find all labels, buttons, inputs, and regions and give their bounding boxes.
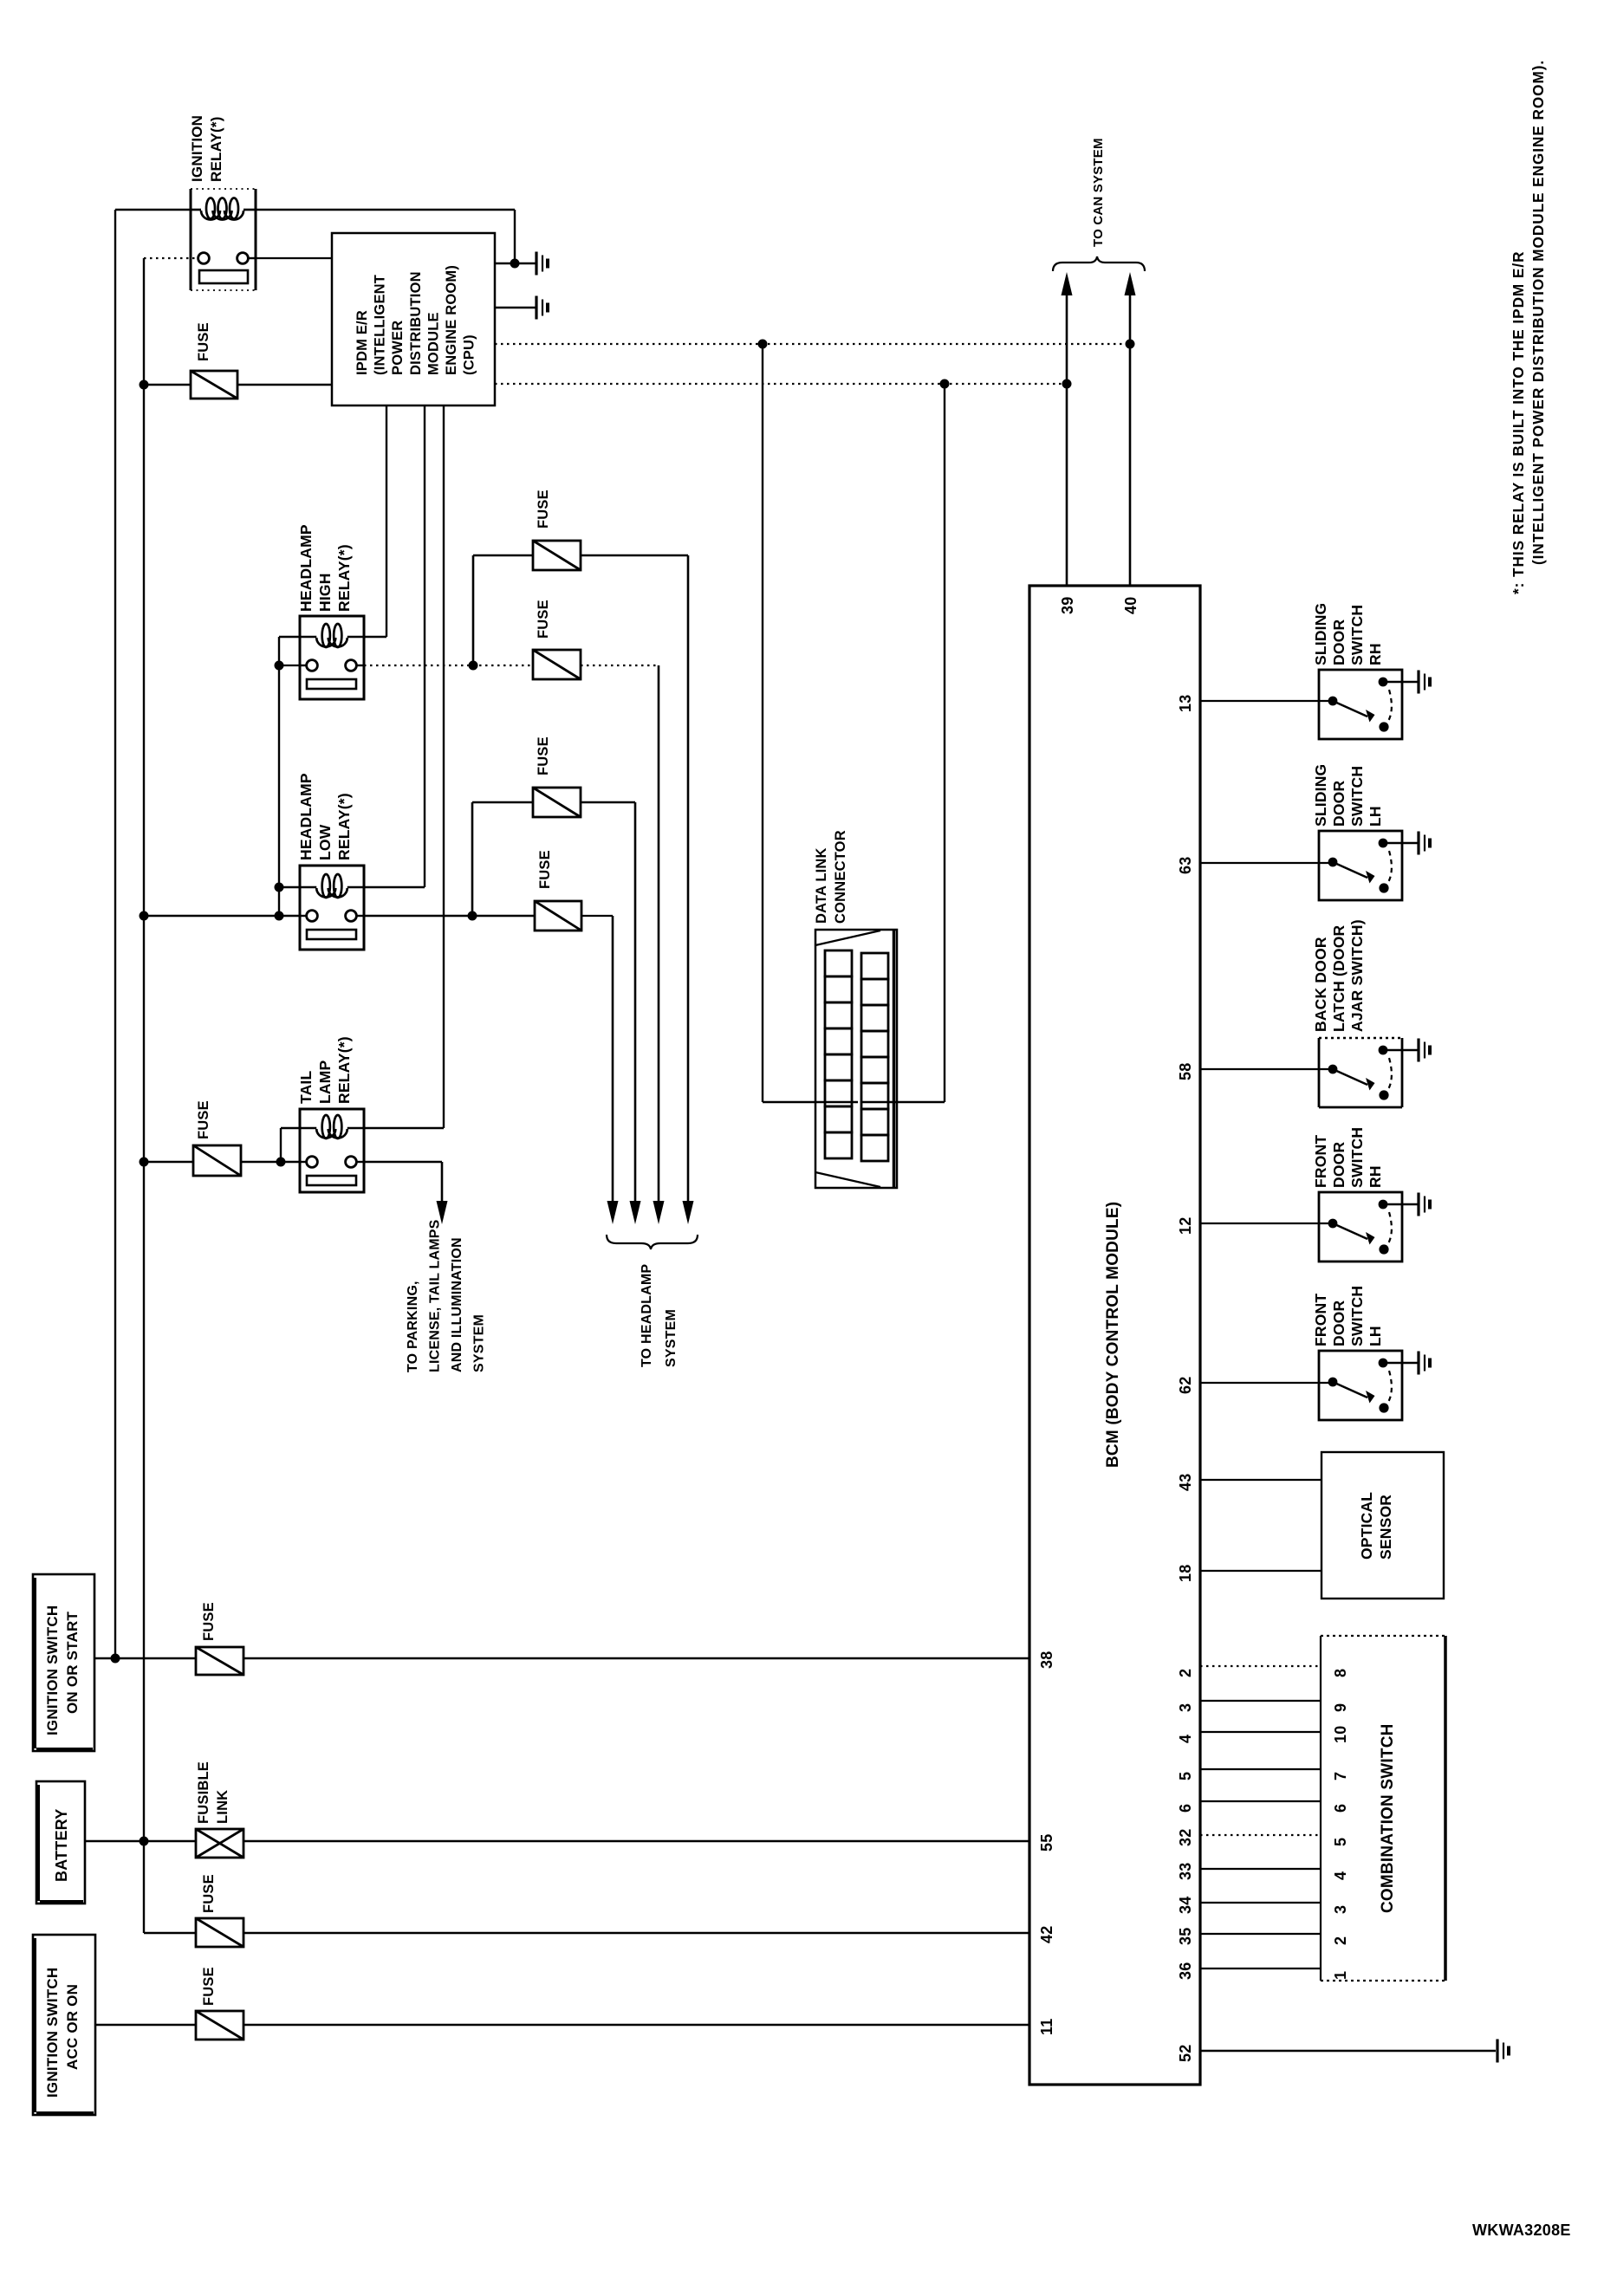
IPDM E/R box U1 (INTELLIGENT POWER DISTRIBUTION MODULE ENGINE ROOM)(CPU): [332, 233, 495, 405]
svg-text:ENGINE ROOM): ENGINE ROOM): [444, 265, 459, 375]
arrow to CAN system 2 (pin 40): [1129, 293, 1132, 586]
svg-text:DOOR: DOOR: [1330, 1300, 1347, 1346]
arrow headlamp system 3: [658, 665, 660, 1203]
wire ignition relay contact output to IPDM: [256, 257, 332, 259]
wire BCM pin 12: [1200, 1223, 1333, 1224]
wire BCM pin 6 to combination switch pin 6: [1200, 1800, 1321, 1802]
junction dot high relay contact feed: [275, 661, 284, 671]
svg-text:7: 7: [1332, 1772, 1349, 1780]
wire ignition switch ON to fuse: [94, 1657, 196, 1659]
svg-text:39: 39: [1059, 597, 1076, 614]
wire BCM pin 4 to combination switch pin 10: [1200, 1731, 1321, 1733]
wire ignition relay coil left lead: [115, 209, 191, 211]
wire high relay contact output dotted: [364, 665, 533, 666]
svg-text:35: 35: [1177, 1928, 1194, 1945]
svg-text:LATCH (DOOR: LATCH (DOOR: [1330, 924, 1347, 1032]
svg-text:BATTERY: BATTERY: [53, 1809, 70, 1882]
svg-text:LH: LH: [1367, 1326, 1384, 1346]
junction dot ignition relay coil tap: [111, 1654, 120, 1664]
ground IPDM 1: [535, 252, 537, 276]
svg-text:SLIDING: SLIDING: [1312, 603, 1329, 665]
arrow headlamp system 2: [634, 802, 637, 1203]
wire IPDM output to headlamp high relay coil: [386, 405, 387, 637]
wire BCM pin 5 to combination switch pin 7: [1200, 1768, 1321, 1770]
svg-text:4: 4: [1332, 1871, 1349, 1880]
svg-text:IGNITION SWITCH: IGNITION SWITCH: [44, 1968, 61, 2098]
svg-text:42: 42: [1038, 1926, 1055, 1943]
svg-text:OPTICAL: OPTICAL: [1358, 1492, 1375, 1560]
svg-text:SYSTEM: SYSTEM: [664, 1309, 679, 1367]
svg-text:(INTELLIGENT: (INTELLIGENT: [373, 275, 388, 375]
wire low relay contact output: [364, 915, 535, 917]
svg-text:FUSE: FUSE: [201, 1967, 217, 2006]
wire fuse to BCM pin 42: [244, 1932, 1029, 1934]
svg-text:ON OR START: ON OR START: [64, 1612, 81, 1714]
wire fuse to BCM pin 38: [244, 1657, 1029, 1659]
wire high relay coil left lead: [279, 636, 300, 638]
wire BCM pin 36 to combination switch pin 1: [1200, 1968, 1321, 1969]
svg-text:LICENSE, TAIL LAMPS: LICENSE, TAIL LAMPS: [428, 1219, 443, 1372]
svg-text:TAIL: TAIL: [297, 1071, 315, 1104]
junction dot low relay coil feed: [275, 883, 284, 892]
svg-text:MODULE: MODULE: [425, 312, 441, 375]
svg-text:63: 63: [1177, 857, 1194, 874]
svg-text:CONNECTOR: CONNECTOR: [833, 830, 848, 924]
svg-text:FUSE: FUSE: [196, 1100, 211, 1139]
svg-text:8: 8: [1332, 1669, 1349, 1677]
svg-text:DOOR: DOOR: [1330, 619, 1347, 665]
junction dot battery bus / tail fuse line: [140, 1158, 149, 1167]
junction dot CAN H / data link drop: [758, 340, 768, 349]
svg-text:3: 3: [1177, 1703, 1194, 1712]
wire BCM pin 32 to combination switch pin 5: [1200, 1834, 1321, 1836]
wire data link connector left drop from CAN H: [762, 344, 763, 1102]
wire BCM pin 3 to combination switch pin 9: [1200, 1700, 1321, 1702]
svg-text:3: 3: [1332, 1905, 1349, 1914]
svg-text:DOOR: DOOR: [1330, 781, 1347, 827]
wire fusible link to BCM pin 55: [244, 1840, 1029, 1842]
svg-text:38: 38: [1038, 1651, 1055, 1669]
svg-text:(CPU): (CPU): [462, 334, 477, 375]
svg-text:5: 5: [1177, 1772, 1194, 1780]
svg-text:33: 33: [1177, 1863, 1194, 1880]
svg-text:SLIDING: SLIDING: [1312, 764, 1329, 827]
svg-text:6: 6: [1177, 1804, 1194, 1813]
svg-text:DOOR: DOOR: [1330, 1142, 1347, 1188]
svg-text:ACC OR ON: ACC OR ON: [64, 1984, 81, 2070]
wire BCM pin 62: [1200, 1382, 1333, 1384]
wire IPDM output to tail lamp relay coil: [443, 405, 445, 1128]
svg-text:FRONT: FRONT: [1312, 1135, 1329, 1188]
svg-text:13: 13: [1177, 695, 1194, 712]
wire riser to fuse F2: [472, 555, 475, 665]
wire ignition switch ACC to fuse: [95, 2024, 196, 2026]
svg-text:HIGH: HIGH: [316, 573, 334, 612]
wire BCM pin 2 to combination switch pin 8: [1200, 1665, 1321, 1667]
svg-text:SWITCH: SWITCH: [1348, 605, 1366, 665]
svg-text:FUSE: FUSE: [536, 600, 551, 639]
svg-text:SWITCH: SWITCH: [1348, 1127, 1366, 1188]
junction dot battery bus tap: [140, 1837, 149, 1846]
junction dot battery bus / fuse F1: [140, 380, 149, 390]
combination switch box: [1321, 1635, 1447, 1637]
svg-text:IPDM E/R: IPDM E/R: [354, 310, 370, 375]
wire BCM pin 43: [1200, 1479, 1322, 1481]
wire ignition relay coil right lead to ground node: [256, 209, 515, 211]
wire relay feeder bus vertical x322: [278, 637, 280, 916]
svg-text:5: 5: [1332, 1838, 1349, 1846]
svg-text:FUSE: FUSE: [536, 736, 551, 775]
svg-text:(INTELLIGENT POWER DISTRIBUTIO: (INTELLIGENT POWER DISTRIBUTION MODULE E…: [1529, 60, 1547, 565]
ground BCM pin 52: [1496, 2040, 1498, 2063]
wire tail relay contact output: [364, 1161, 442, 1163]
svg-text:34: 34: [1177, 1897, 1194, 1914]
svg-text:WKWA3208E: WKWA3208E: [1472, 2221, 1571, 2239]
svg-text:TO PARKING,: TO PARKING,: [406, 1281, 420, 1372]
wire battery bus vertical (node B+): [143, 258, 145, 1933]
svg-text:11: 11: [1038, 2019, 1055, 2035]
arrow to parking license tail lamps and illumination system: [441, 1162, 444, 1203]
svg-text:RH: RH: [1367, 1165, 1384, 1188]
svg-text:6: 6: [1332, 1804, 1349, 1813]
svg-text:AND ILLUMINATION: AND ILLUMINATION: [450, 1237, 464, 1372]
svg-text:FUSE: FUSE: [536, 490, 551, 529]
wire riser to fuse F4: [471, 802, 474, 916]
svg-text:TO HEADLAMP: TO HEADLAMP: [640, 1264, 654, 1367]
brace to headlamp system: [607, 1235, 698, 1249]
svg-text:62: 62: [1177, 1377, 1194, 1394]
svg-text:FUSE: FUSE: [201, 1874, 217, 1913]
wire ignition-relay-coil feed vertical: [114, 210, 116, 1658]
svg-text:AJAR SWITCH): AJAR SWITCH): [1348, 919, 1366, 1032]
wire data link connector right drop from CAN L: [944, 384, 945, 1102]
arrow headlamp system 1: [612, 916, 614, 1203]
svg-text:FUSE: FUSE: [537, 850, 553, 889]
wire BCM pin 13: [1200, 700, 1333, 702]
junction dot low relay output / fuse riser: [468, 911, 477, 921]
wire BCM pin 18: [1200, 1570, 1322, 1572]
svg-text:4: 4: [1177, 1735, 1194, 1743]
svg-text:FUSE: FUSE: [196, 322, 211, 361]
wire high relay contact left lead: [279, 665, 300, 666]
svg-text:58: 58: [1177, 1063, 1194, 1080]
svg-text:HEADLAMP: HEADLAMP: [297, 524, 315, 612]
wire BCM pin 33 to combination switch pin 4: [1200, 1868, 1321, 1870]
svg-text:LAMP: LAMP: [316, 1060, 334, 1104]
BCM box U2 BCM (BODY CONTROL MODULE): [1029, 586, 1200, 2085]
svg-text:32: 32: [1177, 1829, 1194, 1846]
wire IPDM ground 1: [495, 263, 536, 264]
ground IPDM 2: [535, 296, 537, 320]
wire CAN line H dotted from IPDM: [495, 343, 1130, 345]
svg-text:9: 9: [1332, 1703, 1349, 1712]
svg-text:FUSE: FUSE: [201, 1602, 217, 1641]
svg-text:SENSOR: SENSOR: [1377, 1495, 1394, 1560]
wire low relay coil left lead: [279, 886, 300, 888]
svg-text:DATA LINK: DATA LINK: [814, 847, 829, 924]
svg-text:RELAY(*): RELAY(*): [208, 116, 224, 182]
wire ignition relay contact dotted feed: [144, 257, 198, 259]
wire IPDM output to headlamp low relay coil: [424, 405, 425, 887]
wire fuse to BCM pin 11: [244, 2024, 1029, 2026]
svg-text:SWITCH: SWITCH: [1348, 766, 1366, 827]
svg-text:36: 36: [1177, 1962, 1194, 1980]
optical sensor box: [1322, 1452, 1444, 1599]
ignition switch ACC or ON source box: [33, 1935, 95, 2115]
junction dot ignition coil / IPDM ground 1: [510, 259, 520, 269]
junction dot high relay output / fuse riser: [469, 661, 478, 671]
svg-text:1: 1: [1332, 1971, 1349, 1980]
svg-text:LH: LH: [1367, 806, 1384, 827]
svg-text:BACK DOOR: BACK DOOR: [1312, 937, 1329, 1032]
junction dot CAN H / BCM pin 40 riser: [1126, 340, 1135, 349]
wire IPDM ground 2: [495, 307, 536, 308]
svg-text:2: 2: [1332, 1936, 1349, 1945]
svg-text:FRONT: FRONT: [1312, 1294, 1329, 1346]
ignition switch ON or START source box: [33, 1574, 94, 1751]
svg-text:10: 10: [1332, 1726, 1349, 1743]
wire BCM pin 34 to combination switch pin 3: [1200, 1902, 1321, 1904]
arrow to CAN system 1 (pin 39): [1066, 293, 1068, 586]
junction dot battery bus / low relay contact line: [140, 911, 149, 921]
svg-text:TO CAN SYSTEM: TO CAN SYSTEM: [1091, 138, 1106, 247]
wire BCM pin 58: [1200, 1068, 1333, 1070]
svg-text:*: THIS RELAY IS BUILT INTO TH: *: THIS RELAY IS BUILT INTO THE IPDM E/R: [1510, 251, 1527, 594]
wire BCM pin 63: [1200, 862, 1333, 864]
svg-text:COMBINATION SWITCH: COMBINATION SWITCH: [1379, 1723, 1397, 1913]
svg-text:18: 18: [1177, 1565, 1194, 1582]
svg-text:55: 55: [1038, 1834, 1055, 1852]
svg-text:POWER: POWER: [390, 321, 406, 375]
svg-text:DISTRIBUTION: DISTRIBUTION: [408, 271, 424, 375]
svg-text:SYSTEM: SYSTEM: [472, 1314, 487, 1372]
svg-text:LOW: LOW: [316, 824, 334, 860]
svg-text:HEADLAMP: HEADLAMP: [297, 773, 315, 860]
svg-text:RH: RH: [1367, 643, 1384, 665]
arrow headlamp system 4: [687, 555, 690, 1203]
wire low relay contact feed from battery bus: [144, 915, 300, 917]
junction dot CAN L / BCM pin 39 riser: [1062, 379, 1072, 389]
svg-text:LINK: LINK: [215, 1790, 231, 1824]
svg-text:IGNITION SWITCH: IGNITION SWITCH: [44, 1605, 61, 1735]
wire BCM pin 35 to combination switch pin 2: [1200, 1933, 1321, 1935]
svg-text:40: 40: [1122, 597, 1140, 614]
svg-text:SWITCH: SWITCH: [1348, 1286, 1366, 1346]
junction dot low relay contact feed x322: [275, 911, 284, 921]
svg-text:RELAY(*): RELAY(*): [335, 793, 353, 860]
wire battery to fusible link: [85, 1840, 196, 1842]
junction dot tail relay coil / contact feed: [276, 1158, 286, 1167]
svg-text:RELAY(*): RELAY(*): [335, 544, 353, 612]
svg-text:IGNITION: IGNITION: [189, 115, 205, 182]
svg-text:52: 52: [1177, 2045, 1194, 2062]
battery source box: [36, 1781, 85, 1904]
wire CAN line L dotted from IPDM: [495, 383, 1067, 385]
svg-text:12: 12: [1177, 1217, 1194, 1235]
wire tail relay coil left lead: [281, 1127, 300, 1129]
svg-text:2: 2: [1177, 1669, 1194, 1677]
svg-text:RELAY(*): RELAY(*): [335, 1036, 353, 1104]
junction dot CAN L / data link drop: [940, 379, 950, 389]
brace to CAN system: [1053, 256, 1145, 271]
svg-text:BCM (BODY CONTROL MODULE): BCM (BODY CONTROL MODULE): [1104, 1202, 1122, 1468]
svg-text:43: 43: [1177, 1474, 1194, 1491]
wire BCM pin 52 to ground: [1200, 2050, 1496, 2052]
svg-text:FUSIBLE: FUSIBLE: [196, 1761, 211, 1824]
